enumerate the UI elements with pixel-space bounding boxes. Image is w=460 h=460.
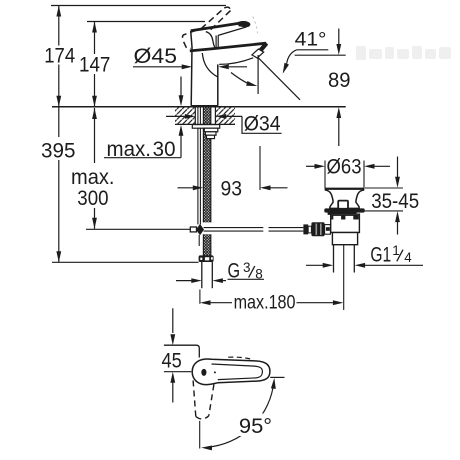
dim G3/8 [176, 280, 197, 282]
ext line below tube [199, 290, 201, 304]
right short ref line [270, 376, 284, 378]
41 diagonal ray [258, 57, 300, 100]
lever swing arc faint [253, 17, 258, 34]
svg-text:Ø45: Ø45 [134, 45, 178, 68]
deck bottom line [175, 123, 235, 125]
sweep arc with arrow [231, 73, 253, 86]
watermark [356, 46, 451, 60]
top view ref top line + corner [164, 345, 199, 357]
top view center ref line [164, 371, 191, 373]
cap tiny dot [214, 371, 216, 373]
lever underside [218, 27, 246, 36]
dim 147 line [94, 22, 96, 107]
svg-text:174: 174 [44, 45, 75, 68]
waste rim band [324, 208, 364, 212]
bottom ref line (hose ends) [52, 261, 199, 263]
faucet body left edge [191, 31, 192, 106]
dim 45 [172, 308, 174, 333]
cap mark oval [201, 369, 206, 376]
tee clevis [190, 227, 196, 232]
95 text mask [236, 414, 275, 437]
dim 147 arrows [92, 22, 97, 33]
dim max.300 line [94, 108, 96, 229]
svg-text:max. 30: max. 30 [107, 138, 176, 161]
tee junction white halo for rod [202, 222, 213, 234]
rod joint black nut [303, 224, 308, 234]
shoulder + spout top edge [190, 43, 266, 51]
svg-text:8: 8 [255, 266, 263, 281]
tee diamond [196, 224, 204, 235]
deck slab hatch right [216, 107, 235, 124]
svg-text:93: 93 [221, 178, 243, 201]
faucet body bottom [191, 105, 218, 107]
lever top edge [191, 22, 246, 31]
dim 35-45 [365, 187, 403, 189]
dim max.180 [200, 300, 211, 305]
svg-text:Ø34: Ø34 [244, 113, 281, 136]
vertical drop line from spout tip [257, 55, 259, 94]
dim 395 arrow [56, 251, 61, 262]
svg-text:95°: 95° [239, 415, 272, 438]
aerator [252, 49, 264, 58]
svg-text:max.: max. [71, 166, 115, 189]
waste body [331, 214, 360, 232]
rod level ref line [86, 228, 190, 230]
svg-text:max.180: max.180 [234, 293, 296, 314]
braided hose column [203, 107, 210, 256]
svg-text:35-45: 35-45 [371, 189, 419, 213]
dim Ø34 leader [166, 116, 282, 133]
svg-text:45: 45 [162, 350, 182, 373]
cartridge dome arc [206, 32, 215, 48]
svg-text:41°: 41° [295, 30, 327, 51]
dashed handle down position [193, 381, 214, 419]
95 degree arc [207, 382, 274, 448]
svg-text:1: 1 [392, 243, 400, 258]
svg-text:89: 89 [328, 69, 351, 92]
dim G1 1/4 [306, 264, 328, 266]
dim 174 arrows [56, 6, 61, 17]
ext line below dashed handle [199, 421, 201, 449]
rod bar right segment 2 [269, 228, 304, 232]
svg-text:G1: G1 [370, 244, 391, 267]
hose nut [199, 255, 214, 262]
svg-text:300: 300 [77, 187, 108, 210]
tailpipe centerline [343, 245, 345, 310]
rod bar right segment 1 [204, 228, 264, 232]
deck slab hatch left [175, 107, 195, 124]
svg-text:147: 147 [79, 53, 110, 76]
handle top-view outline [192, 359, 270, 385]
Ø63 extension lines [324, 161, 326, 189]
41 leader arc [287, 50, 297, 64]
dim max.30 lower arrow + leader [179, 125, 184, 136]
rod stub below tee [198, 235, 200, 246]
waste flange cap [325, 188, 365, 190]
svg-text:Ø63: Ø63 [327, 156, 362, 179]
dim 395 line [58, 107, 60, 262]
shank washer + steps [192, 125, 219, 139]
G3/8 tailpiece tube [202, 262, 213, 288]
svg-text:395: 395 [41, 140, 76, 163]
dim max.300 arrows [92, 108, 97, 119]
deck top line [52, 106, 346, 108]
faucet body right edge [217, 64, 219, 105]
pull rod [198, 107, 201, 225]
waste lower collar [332, 233, 357, 245]
parting arc [202, 53, 217, 77]
deck hole edges [194, 107, 196, 125]
waste body band + notches [331, 215, 358, 220]
dim 89 [338, 29, 340, 46]
spout underside [219, 58, 253, 65]
svg-text:4: 4 [404, 250, 412, 265]
svg-text:3: 3 [243, 260, 251, 275]
lever tip [238, 21, 251, 27]
tailpipe [333, 245, 335, 273]
dim 174 line [58, 6, 60, 107]
neck lines [215, 35, 217, 48]
dashed arc above lever [228, 357, 251, 359]
handle inner facet line [212, 364, 263, 380]
ref line top (tip of raised lever) [51, 5, 226, 7]
ref line lever top [87, 21, 205, 23]
waste center knob [338, 201, 348, 209]
dashed raised lever [183, 7, 231, 48]
dim max.30 upper arrow [180, 77, 182, 97]
svg-text:G: G [228, 260, 241, 283]
spout tip wedge [257, 42, 268, 53]
dim 93 [178, 187, 197, 189]
